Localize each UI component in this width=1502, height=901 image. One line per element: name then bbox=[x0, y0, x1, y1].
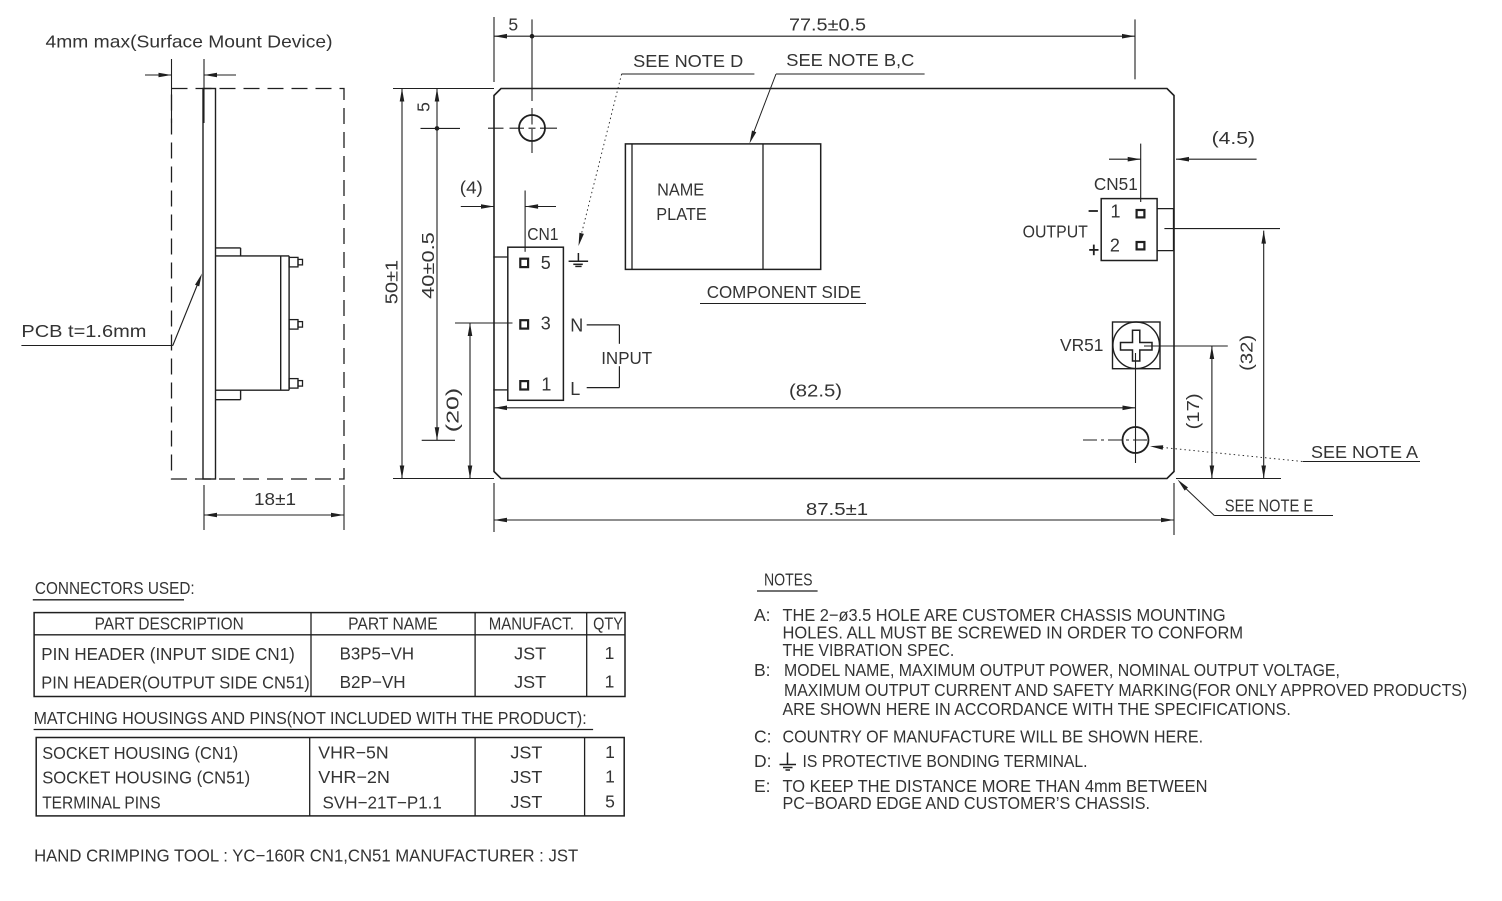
svg-text:PIN HEADER (INPUT SIDE CN1): PIN HEADER (INPUT SIDE CN1) bbox=[41, 644, 294, 664]
svg-text:5: 5 bbox=[541, 253, 551, 273]
svg-text:40±0.5: 40±0.5 bbox=[418, 232, 438, 299]
svg-text:PLATE: PLATE bbox=[656, 204, 706, 224]
svg-text:JST: JST bbox=[510, 767, 542, 787]
svg-text:MANUFACT.: MANUFACT. bbox=[489, 614, 574, 634]
svg-text:JST: JST bbox=[514, 644, 546, 664]
svg-text:87.5±1: 87.5±1 bbox=[806, 499, 868, 519]
svg-text:B:: B: bbox=[754, 660, 771, 680]
svg-text:OUTPUT: OUTPUT bbox=[1023, 222, 1089, 242]
svg-text:1: 1 bbox=[605, 742, 615, 762]
svg-text:18±1: 18±1 bbox=[254, 489, 296, 509]
svg-text:B3P5−VH: B3P5−VH bbox=[340, 644, 415, 664]
svg-text:SEE NOTE A: SEE NOTE A bbox=[1311, 442, 1418, 462]
svg-text:MODEL NAME, MAXIMUM OUTPUT POW: MODEL NAME, MAXIMUM OUTPUT POWER, NOMINA… bbox=[784, 660, 1340, 680]
svg-text:A:: A: bbox=[754, 605, 771, 625]
svg-text:(82.5): (82.5) bbox=[789, 381, 842, 401]
svg-text:NAME: NAME bbox=[657, 180, 704, 200]
svg-text:MAXIMUM OUTPUT CURRENT AND SAF: MAXIMUM OUTPUT CURRENT AND SAFETY MARKIN… bbox=[784, 680, 1467, 700]
svg-text:HAND CRIMPING TOOL : YC−160R C: HAND CRIMPING TOOL : YC−160R CN1,CN51 MA… bbox=[34, 846, 578, 866]
svg-text:SOCKET HOUSING (CN51): SOCKET HOUSING (CN51) bbox=[42, 768, 250, 788]
svg-text:SEE NOTE E: SEE NOTE E bbox=[1225, 496, 1313, 516]
svg-text:ARE SHOWN HERE IN ACCORDANCE W: ARE SHOWN HERE IN ACCORDANCE WITH THE SP… bbox=[783, 699, 1291, 719]
svg-text:THE VIBRATION SPEC.: THE VIBRATION SPEC. bbox=[783, 640, 955, 660]
svg-text:SEE NOTE D: SEE NOTE D bbox=[633, 51, 743, 71]
svg-text:COUNTRY OF MANUFACTURE WILL BE: COUNTRY OF MANUFACTURE WILL BE SHOWN HER… bbox=[783, 727, 1204, 747]
svg-text:SEE NOTE B,C: SEE NOTE B,C bbox=[786, 50, 914, 70]
svg-text:77.5±0.5: 77.5±0.5 bbox=[789, 15, 866, 35]
svg-text:PC−BOARD EDGE AND CUSTOMER’S C: PC−BOARD EDGE AND CUSTOMER’S CHASSIS. bbox=[783, 793, 1151, 813]
svg-text:CN51: CN51 bbox=[1094, 174, 1138, 194]
svg-text:VHR−2N: VHR−2N bbox=[318, 767, 390, 787]
svg-text:VR51: VR51 bbox=[1060, 335, 1103, 355]
svg-text:5: 5 bbox=[508, 15, 518, 35]
svg-text:INPUT: INPUT bbox=[601, 348, 652, 368]
svg-text:4mm max(Surface Mount Device): 4mm max(Surface Mount Device) bbox=[46, 32, 333, 52]
svg-text:1: 1 bbox=[541, 375, 551, 395]
svg-text:3: 3 bbox=[541, 314, 551, 334]
svg-text:(32): (32) bbox=[1236, 335, 1256, 371]
svg-text:SOCKET HOUSING (CN1): SOCKET HOUSING (CN1) bbox=[42, 743, 238, 763]
svg-text:(4): (4) bbox=[460, 178, 483, 198]
svg-text:5: 5 bbox=[414, 102, 434, 112]
svg-text:COMPONENT SIDE: COMPONENT SIDE bbox=[707, 282, 861, 302]
svg-text:1: 1 bbox=[605, 767, 615, 787]
svg-text:L: L bbox=[570, 379, 580, 399]
svg-text:NOTES: NOTES bbox=[764, 570, 813, 590]
svg-text:SVH−21T−P1.1: SVH−21T−P1.1 bbox=[323, 793, 442, 813]
svg-text:IS PROTECTIVE BONDING TERMINAL: IS PROTECTIVE BONDING TERMINAL. bbox=[803, 751, 1088, 771]
svg-text:JST: JST bbox=[510, 792, 542, 812]
svg-text:1: 1 bbox=[605, 643, 615, 663]
svg-text:JST: JST bbox=[510, 743, 542, 763]
svg-text:N: N bbox=[570, 315, 583, 335]
svg-text:PCB t=1.6mm: PCB t=1.6mm bbox=[21, 321, 146, 341]
svg-text:(17): (17) bbox=[1183, 393, 1203, 429]
svg-text:PART DESCRIPTION: PART DESCRIPTION bbox=[95, 614, 244, 634]
svg-text:(4.5): (4.5) bbox=[1212, 128, 1255, 148]
svg-text:TERMINAL PINS: TERMINAL PINS bbox=[42, 793, 160, 813]
svg-text:CN1: CN1 bbox=[527, 224, 558, 244]
svg-text:(20): (20) bbox=[443, 388, 463, 432]
svg-text:PART NAME: PART NAME bbox=[348, 614, 438, 634]
svg-text:50±1: 50±1 bbox=[382, 260, 402, 304]
svg-text:D:: D: bbox=[754, 751, 772, 771]
svg-text:VHR−5N: VHR−5N bbox=[318, 743, 388, 763]
svg-text:C:: C: bbox=[754, 727, 772, 747]
svg-text:MATCHING HOUSINGS AND PINS(NOT: MATCHING HOUSINGS AND PINS(NOT INCLUDED … bbox=[34, 708, 587, 728]
svg-text:1: 1 bbox=[1111, 202, 1121, 222]
svg-text:E:: E: bbox=[754, 776, 771, 796]
svg-text:PIN HEADER(OUTPUT SIDE CN51): PIN HEADER(OUTPUT SIDE CN51) bbox=[41, 673, 309, 693]
svg-text:5: 5 bbox=[605, 792, 615, 812]
svg-text:CONNECTORS USED:: CONNECTORS USED: bbox=[35, 578, 195, 598]
svg-text:B2P−VH: B2P−VH bbox=[340, 672, 406, 692]
svg-text:JST: JST bbox=[514, 672, 546, 692]
svg-text:QTY: QTY bbox=[593, 614, 623, 634]
svg-text:1: 1 bbox=[605, 672, 615, 692]
svg-text:2: 2 bbox=[1110, 236, 1120, 256]
